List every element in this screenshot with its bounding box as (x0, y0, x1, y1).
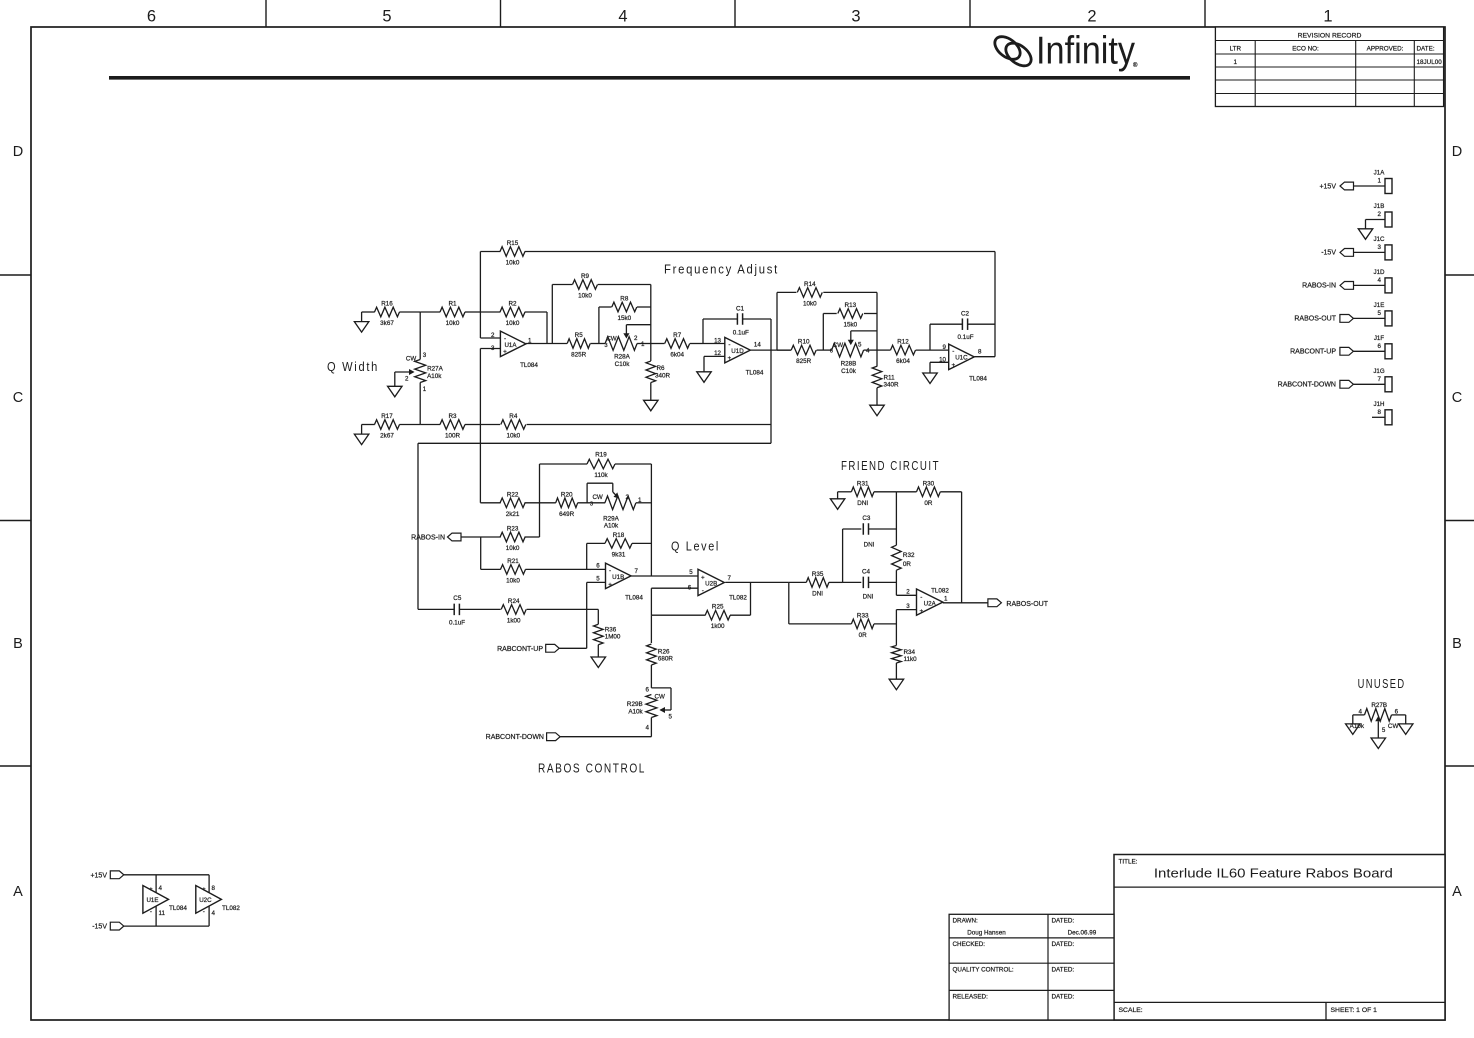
svg-text:R29A: R29A (603, 516, 620, 523)
svg-text:2: 2 (626, 494, 630, 501)
svg-text:DNI: DNI (812, 590, 823, 597)
svg-text:B: B (1452, 636, 1462, 652)
svg-text:U1D: U1D (731, 348, 744, 355)
svg-text:C1: C1 (736, 305, 745, 312)
svg-text:2: 2 (906, 588, 910, 595)
resistor R23 (500, 526, 539, 553)
svg-text:R23: R23 (507, 526, 519, 533)
svg-text:C: C (1452, 390, 1462, 406)
ground (R31 left) (830, 492, 845, 510)
resistor R14 (777, 281, 877, 308)
svg-text:18JUL00: 18JUL00 (1417, 59, 1443, 66)
zone letters right (1452, 144, 1462, 900)
svg-text:825R: 825R (571, 352, 587, 359)
svg-text:RABCONT-DOWN: RABCONT-DOWN (486, 734, 544, 741)
svg-text:3: 3 (491, 345, 495, 352)
svg-text:FRIEND CIRCUIT: FRIEND CIRCUIT (841, 458, 940, 473)
svg-text:0R: 0R (859, 632, 868, 639)
resistor R36 (594, 609, 621, 657)
resistor R5 (567, 332, 605, 359)
svg-text:R27A: R27A (427, 366, 444, 373)
svg-text:5: 5 (382, 8, 391, 26)
wire: C3/C4 left vertical (842, 529, 844, 582)
resistor R11 (872, 350, 899, 405)
ground (R6) (644, 400, 659, 411)
signal flag +15V (power) (90, 871, 209, 879)
svg-text:11: 11 (159, 910, 166, 917)
capacitor C3 (843, 515, 897, 549)
connector J1H pin 8 (1372, 401, 1392, 425)
svg-text:TL084: TL084 (520, 362, 538, 369)
svg-text:DATED:: DATED: (1052, 967, 1075, 974)
svg-text:R29B: R29B (627, 701, 643, 708)
svg-text:RELEASED:: RELEASED: (953, 994, 989, 1001)
wire: U1A output line (526, 343, 567, 345)
svg-text:U1C: U1C (955, 355, 968, 362)
section title: Frequency Adjust (664, 262, 779, 277)
wire: U1D output to R10/R14 node (750, 349, 791, 351)
wire: R23 right up to R22/R20 junction and R19 (539, 464, 541, 537)
ground (U1C pin 10) (923, 362, 949, 383)
svg-text:6k04: 6k04 (670, 352, 684, 359)
svg-text:10k0: 10k0 (506, 577, 520, 584)
zone ticks top (266, 0, 1205, 27)
signal flag RABCONT-UP (497, 644, 587, 652)
wire: U2A output to RABOS-OUT (943, 492, 988, 603)
svg-text:R3: R3 (448, 413, 457, 420)
svg-text:+15V: +15V (1319, 183, 1336, 190)
svg-text:R9: R9 (581, 273, 590, 280)
svg-text:1: 1 (1323, 8, 1332, 26)
svg-text:ECO NO:: ECO NO: (1292, 46, 1319, 53)
svg-text:D: D (13, 144, 23, 160)
op-amp U1B (596, 562, 643, 601)
wire: U2B pin6 to R25/R26 (651, 588, 698, 615)
svg-text:Infinity: Infinity (1036, 30, 1135, 73)
svg-text:3: 3 (604, 343, 607, 349)
drawn/checked table (949, 914, 1114, 1020)
wire: R14/R13/wiper/R11 junction vertical (876, 292, 878, 350)
resistor R34 (892, 610, 918, 680)
svg-text:R7: R7 (673, 332, 682, 339)
resistor R16 (362, 301, 421, 328)
svg-text:2: 2 (634, 335, 638, 342)
svg-text:10k0: 10k0 (506, 320, 520, 327)
svg-text:A10k: A10k (1350, 723, 1365, 730)
svg-text:U1E: U1E (146, 897, 158, 904)
op-amp U2C power symbol (196, 875, 241, 926)
svg-text:6: 6 (1378, 343, 1382, 350)
svg-text:DNI: DNI (857, 500, 868, 507)
svg-text:9: 9 (943, 344, 947, 351)
svg-text:5: 5 (596, 576, 600, 583)
svg-text:5: 5 (1378, 310, 1382, 317)
resistor R30 (896, 480, 961, 507)
svg-text:1: 1 (1378, 178, 1382, 185)
svg-text:+: + (951, 362, 955, 369)
connector J1G pin 7 (1278, 368, 1392, 392)
wire: inverting node vertical (R15/R1/R2 to U1A pin2) (480, 252, 500, 339)
svg-text:J1E: J1E (1374, 302, 1385, 309)
svg-text:3: 3 (906, 603, 910, 610)
zone ticks right (1445, 275, 1474, 766)
svg-text:TL084: TL084 (746, 370, 764, 377)
wire: riser to R14 (776, 292, 778, 350)
svg-text:-: - (920, 594, 922, 601)
svg-text:10k0: 10k0 (506, 433, 520, 440)
resistor R18 (587, 532, 652, 559)
wire: U1A pin3 vertical down to R3/R4 and R22 (480, 349, 500, 503)
svg-text:1M00: 1M00 (605, 634, 621, 641)
svg-text:+: + (608, 582, 612, 589)
svg-text:J1A: J1A (1374, 170, 1386, 177)
svg-text:A: A (1452, 884, 1462, 900)
svg-text:R15: R15 (507, 240, 519, 247)
svg-text:C4: C4 (862, 568, 871, 575)
ground (R27B pin6) (1398, 724, 1413, 735)
svg-text:-: - (203, 909, 205, 916)
svg-text:QUALITY CONTROL:: QUALITY CONTROL: (953, 967, 1014, 974)
svg-text:3: 3 (423, 352, 427, 359)
svg-text:SCALE:: SCALE: (1119, 1007, 1143, 1014)
svg-text:R25: R25 (712, 604, 724, 611)
svg-text:8: 8 (1378, 409, 1382, 416)
svg-text:3: 3 (851, 8, 860, 26)
potentiometer R28B (830, 331, 877, 375)
svg-text:1: 1 (944, 596, 948, 603)
wire: into U1D pin 13 (703, 343, 725, 345)
svg-text:1k00: 1k00 (507, 617, 521, 624)
svg-text:Frequency Adjust: Frequency Adjust (664, 262, 779, 277)
svg-text:5: 5 (669, 714, 673, 721)
svg-text:RABOS CONTROL: RABOS CONTROL (538, 761, 646, 776)
svg-text:2: 2 (1378, 211, 1382, 218)
svg-text:DATED:: DATED: (1052, 941, 1075, 948)
thick rule under logo (109, 76, 1190, 80)
Infinity logo symbol (991, 32, 1036, 70)
wire: riser to R8 (598, 307, 600, 344)
svg-text:R18: R18 (613, 532, 625, 539)
resistor R26 (647, 615, 674, 688)
wire: C1/R4 vertical to Q-level tap (770, 319, 772, 443)
svg-text:-: - (728, 342, 730, 349)
svg-text:0.1uF: 0.1uF (733, 330, 749, 337)
svg-text:7: 7 (1378, 376, 1382, 383)
svg-text:R17: R17 (381, 413, 393, 420)
svg-text:13: 13 (714, 338, 721, 345)
svg-text:J1C: J1C (1373, 236, 1385, 243)
resistor R10 (777, 339, 832, 366)
svg-text:4: 4 (1378, 277, 1382, 284)
svg-text:CW: CW (655, 693, 665, 700)
op-amp U1E power symbol (143, 875, 187, 926)
resistor R1 (420, 301, 480, 328)
svg-text:+: + (728, 355, 732, 362)
svg-text:6: 6 (596, 562, 600, 569)
svg-text:15k0: 15k0 (843, 322, 857, 329)
svg-text:R13: R13 (845, 302, 857, 309)
resistor R8 (599, 296, 651, 323)
svg-text:+: + (503, 349, 507, 356)
svg-text:DATED:: DATED: (1052, 994, 1075, 1001)
svg-text:CW: CW (833, 342, 843, 349)
svg-text:DNI: DNI (863, 593, 874, 600)
svg-text:R28A: R28A (614, 354, 631, 361)
section title: RABOS CONTROL (538, 761, 646, 776)
svg-text:TL082: TL082 (729, 594, 747, 601)
svg-text:RABOS-OUT: RABOS-OUT (1006, 601, 1048, 608)
svg-text:R19: R19 (595, 452, 607, 459)
svg-text:R35: R35 (812, 571, 824, 578)
zone letters left (13, 144, 23, 900)
svg-text:7: 7 (728, 575, 732, 582)
svg-text:TL082: TL082 (931, 588, 949, 595)
svg-text:CW: CW (406, 356, 416, 363)
svg-text:1: 1 (423, 386, 427, 393)
svg-text:9k31: 9k31 (612, 551, 626, 558)
svg-text:CW: CW (592, 494, 602, 501)
svg-text:-: - (150, 909, 152, 916)
op-amp U1A (491, 331, 538, 369)
svg-text:5: 5 (689, 569, 693, 576)
svg-text:Interlude IL60 Feature Rabos B: Interlude IL60 Feature Rabos Board (1154, 866, 1393, 881)
svg-text:0R: 0R (903, 561, 912, 568)
wire: U1B output to U2B pin 5 (631, 575, 698, 577)
wire: R18 left riser to pin6 (586, 543, 588, 569)
op-amp U2B (688, 569, 748, 601)
ground (R17 left) (354, 425, 369, 445)
resistor R33 (789, 612, 897, 639)
resistor R9 (552, 273, 651, 300)
connector J1B pin 2 (1358, 203, 1392, 239)
svg-text:R8: R8 (620, 296, 629, 303)
svg-text:A10k: A10k (604, 523, 619, 530)
resistor R6 (646, 344, 671, 401)
svg-text:10k0: 10k0 (506, 260, 520, 267)
svg-text:1: 1 (638, 497, 642, 504)
svg-text:R16: R16 (381, 301, 393, 308)
svg-text:J1H: J1H (1373, 401, 1384, 408)
svg-text:4: 4 (159, 885, 163, 892)
svg-text:1k00: 1k00 (711, 623, 725, 630)
resistor R32 (892, 492, 915, 596)
svg-text:D: D (1452, 144, 1462, 160)
svg-text:R26: R26 (658, 649, 670, 656)
resistor R2 (480, 301, 547, 328)
wire: riser to R9 (551, 285, 553, 344)
svg-text:R2: R2 (508, 301, 517, 308)
wire: RABOS-IN junction down to R21 (480, 537, 482, 569)
svg-text:J1D: J1D (1373, 269, 1385, 276)
wire: bandpass tap to C5 branch (418, 443, 771, 609)
svg-text:5: 5 (858, 342, 862, 349)
zone numbers top (147, 8, 1333, 26)
svg-text:B: B (13, 636, 23, 652)
svg-text:10k0: 10k0 (446, 320, 460, 327)
svg-text:J1F: J1F (1374, 335, 1385, 342)
svg-text:R30: R30 (923, 480, 935, 487)
svg-text:U1A: U1A (504, 342, 517, 349)
svg-text:DATED:: DATED: (1052, 918, 1075, 925)
resistor R7 (651, 332, 703, 359)
svg-text:7: 7 (635, 568, 639, 575)
svg-text:C10k: C10k (841, 368, 857, 375)
svg-text:R32: R32 (903, 552, 915, 559)
wire: U1B pin5 node vertical (587, 582, 606, 648)
svg-text:J1B: J1B (1374, 203, 1385, 210)
resistor R19 (540, 452, 652, 480)
svg-text:110k: 110k (594, 472, 608, 479)
svg-text:C3: C3 (862, 515, 871, 522)
svg-text:R14: R14 (804, 281, 816, 288)
svg-text:6: 6 (646, 687, 650, 694)
svg-text:15k0: 15k0 (617, 315, 631, 322)
svg-text:6k04: 6k04 (896, 358, 910, 365)
svg-text:R21: R21 (507, 558, 519, 565)
svg-text:2k67: 2k67 (380, 433, 394, 440)
potentiometer R29A (587, 483, 651, 529)
section title: FRIEND CIRCUIT (841, 458, 940, 473)
svg-text:R5: R5 (575, 332, 584, 339)
svg-text:340R: 340R (884, 382, 900, 389)
svg-text:0.1uF: 0.1uF (449, 619, 465, 626)
svg-text:RABOS-IN: RABOS-IN (411, 535, 445, 542)
svg-text:RABOS-OUT: RABOS-OUT (1294, 316, 1336, 323)
svg-text:4: 4 (866, 348, 870, 355)
svg-text:649R: 649R (559, 511, 575, 518)
potentiometer R27B (unused) (1350, 702, 1406, 738)
svg-text:10k0: 10k0 (803, 300, 817, 307)
ground (R16 left) (354, 312, 369, 332)
connector J1C pin 3 (1321, 236, 1392, 260)
wire: U2B out junction down to R33 (788, 582, 790, 624)
resistor R25 (651, 604, 750, 631)
svg-text:-: - (702, 588, 704, 595)
svg-text:Q Width: Q Width (327, 359, 379, 374)
resistor R17 (362, 413, 421, 440)
svg-text:340R: 340R (655, 373, 671, 380)
op-amp U2A (896, 588, 949, 616)
svg-text:10k0: 10k0 (578, 293, 592, 300)
svg-text:U2C: U2C (199, 897, 212, 904)
svg-text:100R: 100R (445, 433, 461, 440)
svg-text:11k0: 11k0 (904, 656, 918, 663)
svg-text:6: 6 (147, 8, 156, 26)
svg-text:UNUSED: UNUSED (1358, 676, 1406, 691)
svg-text:RABCONT-UP: RABCONT-UP (1290, 349, 1336, 356)
svg-text:4: 4 (212, 910, 216, 917)
signal flag RABOS-IN (411, 533, 501, 541)
resistor R4 (480, 413, 771, 440)
svg-text:825R: 825R (796, 358, 812, 365)
svg-text:LTR: LTR (1230, 46, 1242, 53)
svg-text:0R: 0R (924, 500, 933, 507)
svg-text:R6: R6 (657, 365, 666, 372)
svg-text:CW: CW (1388, 723, 1399, 730)
title block (1114, 855, 1445, 1021)
connector J1D pin 4 (1302, 269, 1392, 293)
svg-text:8: 8 (212, 885, 216, 892)
resistor R15 (top feedback) (480, 240, 995, 267)
svg-text:C2: C2 (961, 311, 970, 318)
svg-text:C: C (13, 390, 23, 406)
svg-text:6: 6 (830, 349, 833, 355)
resistor R31 (838, 480, 897, 507)
svg-text:2: 2 (491, 332, 495, 339)
svg-text:R1: R1 (448, 301, 457, 308)
svg-text:R34: R34 (904, 649, 916, 656)
ground (R27B pin4) (1346, 724, 1361, 735)
svg-text:2: 2 (1087, 8, 1096, 26)
ground (R27B wiper) (1371, 738, 1386, 749)
svg-text:2k21: 2k21 (506, 511, 520, 518)
svg-text:TL084: TL084 (625, 594, 643, 601)
wire: U1C output and feedback to R15 (975, 252, 996, 357)
connector J1E pin 5 (1294, 302, 1392, 326)
svg-text:4: 4 (1359, 708, 1363, 715)
svg-text:R4: R4 (509, 413, 518, 420)
svg-text:TITLE:: TITLE: (1119, 859, 1138, 866)
section title: Q Width (327, 359, 379, 374)
svg-text:®: ® (1133, 62, 1138, 69)
potentiometer R28A (604, 325, 650, 368)
svg-text:2: 2 (405, 375, 409, 382)
capacitor C4 (843, 568, 897, 600)
svg-text:TL082: TL082 (222, 905, 240, 912)
section title: Q Level (671, 539, 720, 554)
resistor R35 (789, 571, 843, 598)
svg-text:R22: R22 (507, 491, 519, 498)
svg-text:SHEET: 1 OF 1: SHEET: 1 OF 1 (1331, 1007, 1378, 1014)
ground (R11) (870, 405, 885, 416)
resistor R20 (556, 491, 606, 518)
svg-text:Q Level: Q Level (671, 539, 720, 554)
svg-text:U2B: U2B (705, 581, 717, 588)
wire: R9/R8/wiper/R6 junction vertical (650, 285, 652, 344)
svg-text:CW: CW (606, 336, 616, 343)
ground (R36) (591, 657, 606, 668)
svg-text:R27B: R27B (1371, 702, 1387, 709)
capacitor C2 (930, 311, 995, 351)
op-amp U1C (939, 344, 987, 382)
svg-text:TL084: TL084 (969, 376, 987, 383)
signal flag -15V (power) (92, 922, 209, 930)
svg-text:R31: R31 (857, 480, 869, 487)
svg-text:U1B: U1B (612, 574, 624, 581)
resistor R3 (420, 413, 480, 440)
capacitor C1 (703, 305, 771, 343)
svg-text:+: + (202, 886, 206, 893)
svg-text:RABCONT-DOWN: RABCONT-DOWN (1278, 382, 1336, 389)
svg-text:1: 1 (641, 341, 645, 348)
resistor R22 (480, 491, 555, 518)
svg-text:4: 4 (646, 725, 650, 732)
revision record table (1215, 27, 1443, 107)
potentiometer R27A (388, 352, 444, 425)
svg-text:R33: R33 (857, 612, 869, 619)
svg-text:R11: R11 (884, 375, 896, 382)
svg-text:-15V: -15V (92, 924, 107, 931)
resistor R12 (877, 339, 949, 366)
svg-text:DRAWN:: DRAWN: (953, 918, 979, 925)
svg-text:U2A: U2A (924, 601, 937, 608)
signal flag RABCONT-DOWN (486, 733, 652, 741)
svg-text:REVISION RECORD: REVISION RECORD (1298, 32, 1362, 39)
svg-text:Doug Hansen: Doug Hansen (967, 930, 1006, 937)
svg-text:6: 6 (1395, 708, 1399, 715)
capacitor C5 (418, 595, 501, 627)
svg-text:-: - (609, 568, 611, 575)
